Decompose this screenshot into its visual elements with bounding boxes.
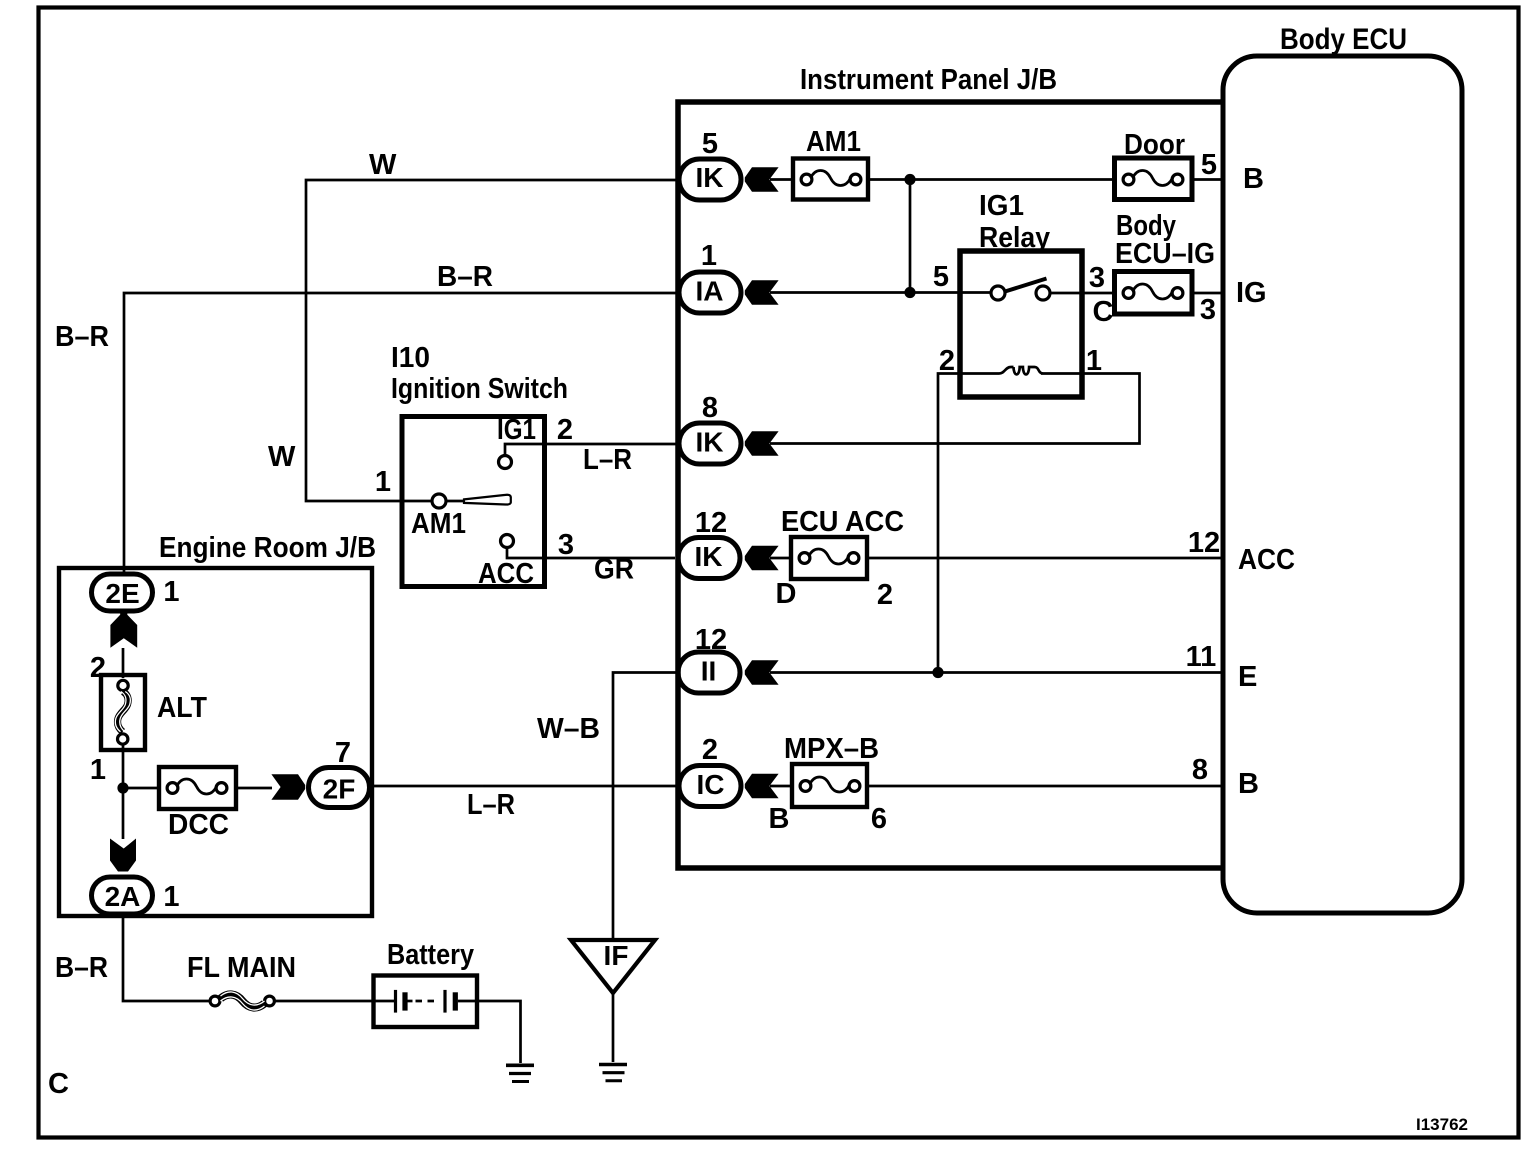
wire ignition ACC contact to connector IK12	[507, 548, 675, 558]
svg-text:I10: I10	[391, 342, 430, 374]
svg-text:FL MAIN: FL MAIN	[187, 952, 296, 984]
wire DCC to arrow	[236, 787, 272, 790]
svg-text:7: 7	[335, 737, 351, 769]
svg-text:B–R: B–R	[437, 261, 493, 293]
svg-text:12: 12	[695, 624, 727, 656]
fuse AM1	[793, 126, 868, 200]
svg-text:1: 1	[163, 881, 179, 913]
svg-text:12: 12	[1188, 527, 1220, 559]
svg-text:IF: IF	[604, 940, 629, 971]
svg-text:IG: IG	[1236, 277, 1267, 309]
svg-text:2F: 2F	[323, 774, 356, 805]
svg-text:DCC: DCC	[168, 809, 229, 841]
svg-text:1: 1	[90, 754, 106, 786]
fuse DCC	[159, 767, 236, 841]
wire ignition IG1 contact to connector IK8	[505, 444, 676, 456]
fuse ECU ACC	[781, 506, 904, 579]
connector 2A pin 1	[92, 877, 180, 914]
arrow into IK5	[745, 167, 779, 192]
wire B-R 2A to FL MAIN	[123, 916, 209, 1001]
wire arrow to fuse AM1	[770, 178, 794, 181]
ground IF	[599, 1065, 627, 1081]
wire battery to ground	[477, 1001, 521, 1063]
connector IC pin 2	[679, 734, 741, 807]
svg-text:IA: IA	[696, 276, 724, 307]
wire relay to fuse Body ECU-IG	[1050, 292, 1115, 295]
svg-text:II: II	[701, 656, 717, 687]
svg-text:IK: IK	[695, 541, 723, 572]
svg-text:W: W	[268, 441, 296, 473]
svg-text:5: 5	[933, 261, 949, 293]
svg-text:AM1: AM1	[411, 508, 466, 540]
svg-text:IK: IK	[696, 162, 724, 193]
svg-text:IG1: IG1	[979, 190, 1024, 222]
svg-text:Ignition Switch: Ignition Switch	[391, 373, 568, 405]
fuse MPX-B	[784, 733, 879, 807]
connector IK pin 12	[678, 507, 740, 579]
svg-text:6: 6	[871, 803, 887, 835]
wire IA arrow to relay contact	[770, 291, 990, 294]
wire IK8 arrow to relay pin 1	[770, 374, 1140, 444]
svg-text:ECU–IG: ECU–IG	[1115, 238, 1215, 270]
ground battery	[506, 1065, 534, 1081]
fusible link FL MAIN	[187, 952, 296, 1010]
svg-text:3: 3	[558, 529, 574, 561]
wire IF to ground	[612, 993, 615, 1062]
wire arrow to ALT	[122, 648, 125, 678]
junction node on row E	[932, 667, 943, 678]
connector 2E pin 1	[92, 574, 180, 611]
svg-text:E: E	[1238, 661, 1257, 693]
svg-text:Relay: Relay	[979, 222, 1050, 254]
wire ALT to junction and down arrow	[122, 745, 125, 839]
svg-text:2: 2	[877, 579, 893, 611]
connector IA pin 1	[679, 240, 741, 313]
ignition switch contact IG1	[497, 414, 536, 469]
arrow into II	[745, 660, 779, 685]
battery	[374, 939, 478, 1027]
relay IG1 contact circles and lever	[991, 279, 1050, 301]
svg-text:ACC: ACC	[478, 558, 534, 590]
arrow into IK8	[745, 431, 779, 456]
svg-text:Instrument Panel J/B: Instrument Panel J/B	[800, 64, 1057, 96]
svg-text:B–R: B–R	[55, 321, 109, 353]
svg-text:2E: 2E	[105, 578, 139, 609]
svg-text:2: 2	[557, 414, 573, 446]
connector II pin 12	[678, 624, 740, 693]
svg-text:B: B	[1238, 768, 1259, 800]
svg-text:2A: 2A	[105, 881, 141, 912]
svg-text:IK: IK	[696, 427, 724, 458]
svg-text:ACC: ACC	[1238, 544, 1295, 576]
svg-text:8: 8	[702, 392, 718, 424]
fuse Body ECU-IG	[1115, 210, 1216, 314]
svg-text:IC: IC	[697, 769, 725, 800]
svg-text:3: 3	[1200, 294, 1216, 326]
wire 2F to connector IC	[372, 785, 679, 788]
wire B-R to connector IA	[124, 293, 676, 574]
Engine Room J/B block	[59, 532, 376, 916]
svg-text:I13762: I13762	[1416, 1115, 1468, 1134]
svg-text:B: B	[769, 803, 790, 835]
svg-text:B: B	[1243, 163, 1264, 195]
wire ground IF riser to connector II	[613, 673, 676, 941]
wire ECU ACC fuse to Body ECU pin ACC	[866, 557, 1224, 560]
ignition switch I10 box	[391, 342, 568, 587]
svg-text:AM1: AM1	[806, 126, 861, 158]
fuse Door	[1115, 129, 1193, 200]
Instrument Panel J/B block	[678, 64, 1221, 868]
junction node DCC branch	[117, 782, 128, 793]
svg-text:1: 1	[701, 240, 717, 272]
svg-text:Battery: Battery	[387, 939, 474, 971]
svg-text:D: D	[776, 578, 797, 610]
svg-text:GR: GR	[594, 554, 634, 586]
svg-text:1: 1	[375, 466, 391, 498]
wire II arrow to Body ECU pin E	[770, 671, 1224, 674]
svg-text:1: 1	[1086, 345, 1102, 377]
svg-text:IG1: IG1	[497, 414, 536, 446]
wire IC arrow to fuse MPX-B	[770, 785, 794, 788]
wire junction to fuse DCC	[123, 787, 160, 790]
junction node at AM1 output	[904, 174, 915, 185]
arrow into IC	[745, 774, 779, 799]
wire IK12 arrow to fuse ECU ACC	[770, 557, 793, 560]
junction node at IA row	[904, 287, 915, 298]
svg-text:Engine Room J/B: Engine Room J/B	[159, 532, 376, 564]
wire fuse to Body ECU pin IG	[1192, 292, 1224, 295]
arrow right into 2F	[271, 774, 305, 800]
ground connector IF triangle	[571, 940, 655, 993]
svg-text:MPX–B: MPX–B	[784, 733, 879, 765]
svg-text:2: 2	[702, 734, 718, 766]
arrow into IK12	[745, 546, 779, 571]
svg-text:Door: Door	[1124, 129, 1185, 161]
fusible link ALT	[101, 675, 207, 750]
svg-text:5: 5	[1201, 149, 1217, 181]
svg-text:L–R: L–R	[583, 444, 632, 476]
connector IK pin 5	[679, 128, 741, 200]
svg-text:2: 2	[90, 652, 106, 684]
svg-text:ALT: ALT	[157, 692, 207, 724]
svg-text:W–B: W–B	[537, 713, 600, 745]
svg-text:W: W	[369, 149, 397, 181]
wire Door fuse to Body ECU pin B	[1192, 178, 1224, 181]
svg-text:L–R: L–R	[467, 789, 515, 821]
wire W from ignition switch pin 1 up and right to connector IK	[306, 180, 676, 501]
svg-text:B–R: B–R	[55, 952, 108, 984]
ignition switch contact AM1 and lever	[411, 494, 511, 540]
svg-text:8: 8	[1192, 754, 1208, 786]
svg-text:5: 5	[702, 128, 718, 160]
svg-text:1: 1	[163, 576, 179, 608]
svg-text:ECU ACC: ECU ACC	[781, 506, 904, 538]
wire FL MAIN to battery	[275, 1000, 373, 1003]
arrow into IA	[745, 280, 779, 305]
wire fuse AM1 to fuse Door	[867, 178, 1115, 181]
svg-text:3: 3	[1089, 262, 1105, 294]
svg-text:12: 12	[695, 507, 727, 539]
connector 2F pin 7	[309, 737, 370, 808]
Body ECU block U1	[1223, 23, 1462, 913]
svg-text:Body ECU: Body ECU	[1280, 23, 1407, 56]
svg-text:C: C	[1093, 296, 1114, 328]
svg-text:C: C	[48, 1068, 69, 1100]
connector IK pin 8	[679, 392, 741, 464]
arrow down into 2A	[110, 839, 136, 872]
arrow up into 2E	[110, 611, 137, 648]
wire junction down to IA row	[909, 180, 912, 293]
relay IG1 box	[960, 190, 1082, 397]
svg-text:11: 11	[1186, 641, 1217, 673]
ignition switch contact ACC	[478, 535, 534, 591]
wire relay pin 2 down to row E	[938, 374, 962, 672]
relay coil	[958, 367, 1084, 374]
wire MPX-B fuse to Body ECU pin B	[866, 785, 1224, 788]
